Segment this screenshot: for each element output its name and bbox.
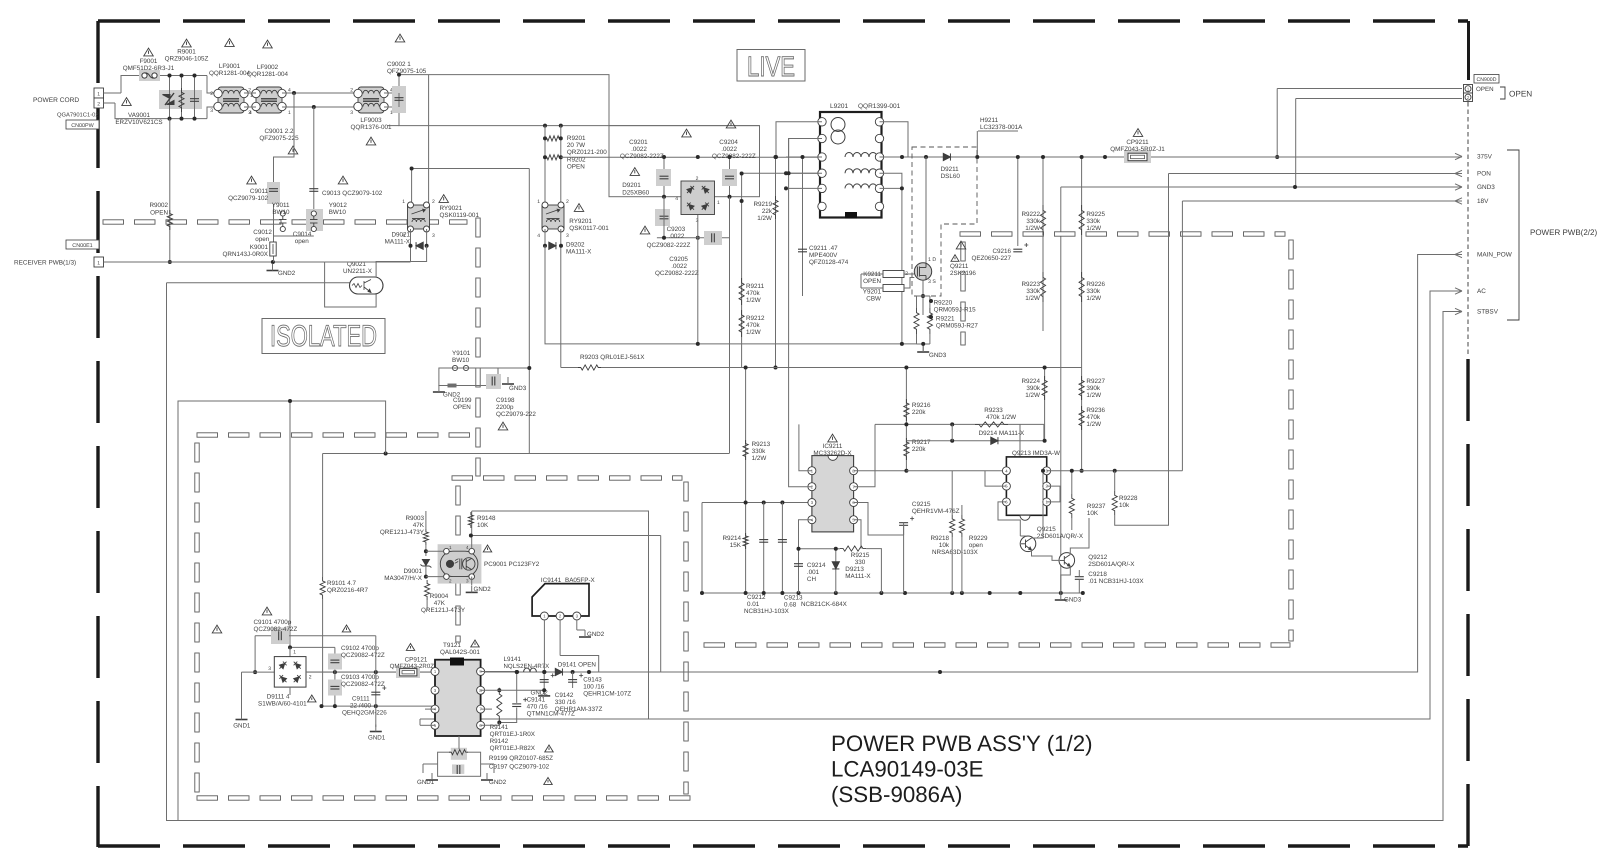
junction bbox=[410, 167, 414, 171]
svg-text:2: 2 bbox=[350, 88, 353, 94]
junction bbox=[784, 186, 788, 190]
junction bbox=[662, 155, 666, 159]
transistor Q9211 (MOSFET) bbox=[914, 263, 931, 280]
jumper CP9121 bbox=[400, 669, 417, 676]
svg-text:22 /400: 22 /400 bbox=[350, 703, 372, 710]
wire MAIN_POW net bbox=[306, 255, 1462, 673]
wire R9222 column bbox=[1042, 157, 1044, 331]
wire LF9001-LF9002 top bbox=[244, 92, 256, 94]
wire to Q9213 bbox=[906, 470, 1006, 472]
svg-text:MA3047/H/-X: MA3047/H/-X bbox=[384, 575, 423, 582]
junction bbox=[728, 195, 732, 199]
junction bbox=[1041, 155, 1045, 159]
junction bbox=[929, 315, 933, 319]
svg-text:R9101 4.7: R9101 4.7 bbox=[327, 580, 357, 587]
capacitor C9203 highlight bbox=[655, 209, 670, 226]
junction bbox=[950, 439, 954, 443]
junction bbox=[333, 670, 337, 674]
svg-text:1: 1 bbox=[288, 110, 291, 116]
svg-text:OPEN: OPEN bbox=[1476, 86, 1494, 93]
junction bbox=[288, 399, 292, 403]
svg-text:DSL60: DSL60 bbox=[941, 173, 961, 180]
svg-text:QRT01EJ-R82X: QRT01EJ-R82X bbox=[490, 745, 536, 752]
wire bridge minus bbox=[697, 215, 699, 238]
bracket POWER PWB(2/2) bbox=[1507, 150, 1519, 320]
svg-text:PC9001 PC123FY2: PC9001 PC123FY2 bbox=[484, 561, 540, 568]
svg-text:375V: 375V bbox=[1477, 154, 1493, 161]
svg-text:D25XB60: D25XB60 bbox=[622, 190, 649, 197]
svg-text:C9198: C9198 bbox=[496, 397, 515, 404]
wire standby top loop bbox=[178, 401, 386, 821]
capacitor C9203 bbox=[660, 216, 669, 219]
capacitor C9111 bbox=[371, 692, 380, 695]
svg-text:R9211: R9211 bbox=[746, 283, 765, 290]
resonator Y9012 highlight bbox=[306, 209, 323, 231]
node PON bbox=[1455, 170, 1462, 176]
svg-text:RY9021: RY9021 bbox=[440, 205, 463, 212]
junction bbox=[801, 155, 805, 159]
svg-text:C9002 1: C9002 1 bbox=[387, 61, 411, 68]
svg-text:(SSB-9086A): (SSB-9086A) bbox=[831, 782, 962, 807]
svg-text:D9141 OPEN: D9141 OPEN bbox=[558, 662, 597, 669]
warning symbol C9216 bbox=[956, 241, 966, 249]
svg-text:D9201: D9201 bbox=[622, 182, 641, 189]
wire 375V net bbox=[881, 156, 1462, 158]
pin L9201 left 2 bbox=[818, 134, 826, 142]
svg-text:C9204: C9204 bbox=[719, 139, 738, 146]
junction bbox=[384, 452, 388, 456]
resistor R9001 bbox=[179, 88, 184, 112]
capacitor C9204 bbox=[725, 176, 734, 179]
wire bbox=[916, 334, 918, 344]
wire R9201 column right bbox=[560, 126, 562, 207]
connector RECEIVER pin 1 bbox=[94, 257, 104, 267]
junction bbox=[696, 236, 700, 240]
wire bbox=[951, 537, 953, 593]
wire GND3 net bbox=[1061, 186, 1462, 188]
wire pin6 row bbox=[481, 724, 500, 726]
connector CN00PW label box bbox=[66, 120, 99, 129]
relay RY9201 highlight bbox=[542, 205, 564, 229]
junction bbox=[740, 199, 744, 203]
svg-text:C9013 QCZ9079-102: C9013 QCZ9079-102 bbox=[322, 190, 383, 197]
resistor R9220 bbox=[914, 308, 919, 334]
wire C9111 column bbox=[375, 636, 377, 727]
diode D9211 bbox=[943, 153, 950, 160]
svg-text:100 /16: 100 /16 bbox=[583, 684, 605, 691]
wire AC return net bbox=[420, 291, 1462, 719]
svg-text:330 /16: 330 /16 bbox=[555, 699, 577, 706]
wire LF9003 out bottom bbox=[384, 106, 399, 108]
transformer T9121 bbox=[435, 660, 481, 736]
svg-text:C9203: C9203 bbox=[667, 226, 686, 233]
wire R9203 left bbox=[561, 367, 580, 369]
pin L9201 left 1 bbox=[818, 118, 826, 126]
wire OPEN pin2 net bbox=[1296, 98, 1462, 100]
svg-text:QRZ0121-200: QRZ0121-200 bbox=[567, 149, 607, 156]
capacitor C9212 bbox=[759, 540, 768, 543]
pin L9201 left 5 bbox=[818, 184, 826, 192]
svg-text:D9021: D9021 bbox=[391, 232, 410, 239]
junction bbox=[543, 155, 547, 159]
wire C9142 drop bbox=[543, 672, 545, 694]
wire to fuse bbox=[121, 76, 141, 94]
wire C9211 branch bbox=[802, 157, 804, 296]
wire OPEN pin1 net bbox=[1277, 88, 1462, 90]
resistor R9226 bbox=[1079, 272, 1084, 302]
transformer L9201 windings bbox=[831, 118, 877, 189]
svg-text:C9201: C9201 bbox=[629, 139, 648, 146]
transformer L9201 bbox=[820, 112, 882, 218]
svg-text:R9203 QRL01EJ-561X: R9203 QRL01EJ-561X bbox=[580, 354, 645, 361]
transistor Q9215 bbox=[1020, 536, 1036, 552]
junction bbox=[1080, 469, 1084, 473]
junction bbox=[1070, 469, 1074, 473]
optocoupler PC9001 bbox=[440, 551, 478, 576]
junction bbox=[559, 124, 563, 128]
svg-text:QRZ9046-105Z: QRZ9046-105Z bbox=[165, 56, 209, 63]
wire LF9002-LF9003 bottom bbox=[282, 106, 358, 108]
wire H9211 drop bbox=[976, 131, 978, 157]
svg-text:470k 1/2W: 470k 1/2W bbox=[986, 414, 1016, 421]
wire bbox=[423, 763, 438, 765]
wire LF9001-LF9002 bottom bbox=[244, 106, 256, 108]
junction bbox=[168, 74, 172, 78]
label LIVE box bbox=[737, 50, 805, 82]
resistor R9004 bbox=[425, 580, 430, 600]
jumper H9211 bbox=[978, 130, 1018, 132]
wire R9002 branch bbox=[169, 119, 171, 262]
wire L9201 out3 bbox=[880, 187, 902, 189]
wire bbox=[536, 671, 556, 673]
resistor Y9201 (box) bbox=[883, 285, 904, 292]
resistor R9227 bbox=[1079, 376, 1084, 400]
wire OPEN pin1 drop bbox=[1276, 89, 1278, 158]
svg-text:L9141: L9141 bbox=[504, 656, 522, 663]
junction bbox=[797, 591, 801, 595]
wire L9201 pin4 bbox=[786, 172, 822, 174]
wire L9201 pin2 bbox=[789, 139, 822, 174]
wire Q9215 collector bbox=[1032, 471, 1044, 538]
svg-text:D9202: D9202 bbox=[566, 242, 585, 249]
wire to RY9021 pin2 bbox=[428, 75, 430, 207]
svg-text:1/2W: 1/2W bbox=[746, 297, 761, 304]
line filter LF9001 highlight bbox=[218, 87, 244, 113]
wire L9201 secondary return bbox=[880, 173, 902, 344]
svg-text:R9226: R9226 bbox=[1086, 281, 1105, 288]
svg-text:VA9001: VA9001 bbox=[128, 112, 150, 119]
svg-text:R9142: R9142 bbox=[490, 738, 509, 745]
fuse F9001 highlight bbox=[139, 70, 160, 81]
junction bbox=[950, 422, 954, 426]
warning symbol C9198 bbox=[498, 422, 508, 430]
svg-text:R9148: R9148 bbox=[477, 515, 496, 522]
wire bbox=[1071, 471, 1073, 494]
svg-text:3 S: 3 S bbox=[928, 279, 936, 285]
svg-text:Y9101: Y9101 bbox=[452, 350, 471, 357]
wire RY9021 pin3 down bbox=[426, 229, 428, 246]
junction bbox=[320, 704, 324, 708]
wire bbox=[1078, 570, 1080, 577]
resistor R9214 bbox=[743, 533, 748, 549]
wire R9216 column bbox=[905, 395, 907, 462]
warning symbol R9199 bbox=[544, 778, 553, 785]
wire bbox=[420, 724, 435, 726]
resistor R9141 bbox=[497, 688, 502, 723]
wire pin2 bend bbox=[115, 103, 121, 119]
junction bbox=[333, 704, 337, 708]
warning symbol C9002 bbox=[395, 34, 405, 42]
svg-text:Q9213 IMD3A-W: Q9213 IMD3A-W bbox=[1012, 450, 1060, 457]
svg-text:GND1: GND1 bbox=[368, 735, 386, 742]
wire C9101 row bbox=[255, 635, 376, 637]
wire L9201 pin5 bbox=[786, 187, 822, 189]
wire stub bbox=[387, 125, 399, 127]
wire bottom primary bbox=[121, 118, 207, 120]
wire D9214 net bbox=[906, 440, 1044, 442]
svg-text:C9212: C9212 bbox=[747, 594, 766, 601]
resistor R9221 bbox=[927, 308, 932, 334]
junction bbox=[1103, 155, 1107, 159]
warning symbol C9201 bbox=[682, 129, 692, 137]
wire bbox=[425, 566, 427, 578]
wire pin1 to filter bbox=[104, 92, 122, 94]
resistor R9218 bbox=[950, 515, 955, 537]
wire bbox=[419, 719, 421, 725]
wire bbox=[422, 764, 424, 773]
junction bbox=[834, 547, 838, 551]
junction bbox=[559, 136, 563, 140]
capacitor C9101 highlight bbox=[271, 628, 289, 645]
svg-text:RECEIVER PWB(1/3): RECEIVER PWB(1/3) bbox=[14, 260, 76, 267]
wire Y9201 left bbox=[861, 287, 883, 289]
wire L9201 out top bbox=[880, 122, 909, 157]
junction bbox=[900, 342, 904, 346]
svg-text:4: 4 bbox=[466, 545, 469, 550]
svg-text:QQR1376-001: QQR1376-001 bbox=[351, 124, 392, 131]
junction bbox=[397, 73, 401, 77]
junction bbox=[587, 670, 591, 674]
svg-text:QFZ0128-474: QFZ0128-474 bbox=[809, 259, 849, 266]
jumper CP9211 bbox=[1128, 153, 1147, 161]
svg-text:D9111 4: D9111 4 bbox=[267, 694, 290, 701]
junction bbox=[762, 591, 766, 595]
ground GND2 (C9197) bbox=[481, 779, 493, 781]
svg-text:QAL042S-001: QAL042S-001 bbox=[440, 649, 480, 656]
junction bbox=[424, 549, 428, 553]
wire RY9021 to Q9021 collector bbox=[376, 246, 427, 278]
resistor R9201 bbox=[545, 136, 561, 141]
ground GND2 (PC9001) bbox=[466, 591, 478, 593]
wire bbox=[426, 550, 444, 552]
junction bbox=[542, 670, 546, 674]
capacitor C9101 bbox=[279, 631, 282, 640]
node MAIN_POW bbox=[1455, 251, 1462, 257]
svg-text:H9211: H9211 bbox=[980, 117, 999, 124]
junction bbox=[662, 195, 666, 199]
svg-text:C9012: C9012 bbox=[253, 229, 272, 236]
svg-text:R9213: R9213 bbox=[752, 441, 771, 448]
capacitor C9213 bbox=[778, 540, 787, 543]
ground GND2 (Y9101) bbox=[433, 391, 445, 393]
wire bbox=[835, 549, 837, 593]
wire standby rail bbox=[306, 671, 435, 673]
capacitor C9142 bbox=[540, 680, 549, 683]
svg-text:QCZ9082-222Z: QCZ9082-222Z bbox=[655, 270, 699, 277]
wire IC pin4 net bbox=[799, 520, 812, 549]
capacitor C9204 highlight bbox=[722, 169, 737, 186]
svg-text:MA111-X: MA111-X bbox=[845, 573, 871, 580]
wire IC pin7 net bbox=[854, 424, 875, 486]
wire bbox=[929, 334, 931, 344]
svg-text:Y9011: Y9011 bbox=[272, 202, 290, 209]
svg-text:QQR1281-004: QQR1281-004 bbox=[209, 70, 250, 77]
junction bbox=[744, 366, 748, 370]
junction bbox=[424, 575, 428, 579]
wire Q9215 base feed bbox=[1020, 536, 1026, 537]
svg-text:CN00E1: CN00E1 bbox=[72, 243, 92, 249]
svg-text:2SK2196: 2SK2196 bbox=[950, 270, 976, 277]
svg-text:.0022: .0022 bbox=[721, 146, 737, 153]
svg-text:C9205: C9205 bbox=[669, 256, 688, 263]
wire receiver net bbox=[104, 261, 325, 263]
svg-text:20 7W: 20 7W bbox=[567, 142, 585, 149]
wire standby output bbox=[563, 671, 1417, 673]
svg-text:R9236: R9236 bbox=[1086, 407, 1105, 414]
optocoupler PC9001 highlight bbox=[438, 544, 482, 583]
resistor R9212 bbox=[739, 310, 744, 337]
dashed box Q9211 bbox=[912, 147, 977, 296]
capacitor C9198 bbox=[492, 377, 495, 386]
capacitor C9211 bbox=[798, 249, 807, 252]
svg-text:OPEN: OPEN bbox=[453, 404, 471, 411]
jumper CP9121 highlight bbox=[396, 667, 420, 679]
wire bbox=[1019, 424, 1021, 470]
line filter LF9002 bbox=[261, 90, 277, 106]
wire IC pin1 net bbox=[799, 424, 812, 470]
svg-text:1/2W: 1/2W bbox=[1025, 295, 1040, 302]
junction bbox=[921, 294, 925, 298]
wire Q9211 source down bbox=[922, 280, 924, 315]
dashed boundary LIVE/ISOLATED horizontal y222 bbox=[103, 220, 467, 224]
svg-text:R9229: R9229 bbox=[969, 535, 988, 542]
wire C9102 column bbox=[334, 647, 336, 706]
inductor L9141 bbox=[524, 668, 537, 672]
wire varistor branch bbox=[169, 76, 171, 119]
junction bbox=[497, 721, 501, 725]
wire bbox=[426, 576, 444, 578]
svg-text:QRZ0216-4R7: QRZ0216-4R7 bbox=[327, 587, 368, 594]
svg-text:NRSA63D-103X: NRSA63D-103X bbox=[932, 549, 979, 556]
wire L9201 out1 bbox=[880, 156, 903, 158]
svg-text:47K: 47K bbox=[434, 600, 446, 607]
svg-text:1/2W: 1/2W bbox=[1025, 225, 1040, 232]
wire bbox=[961, 537, 963, 593]
dashed boundary horizontal y478 bbox=[452, 476, 682, 480]
resistor R9228 bbox=[1112, 491, 1117, 515]
node STBSV bbox=[1455, 308, 1462, 314]
wire R9225 column bbox=[1081, 157, 1083, 331]
resonator Y9011 bbox=[280, 211, 285, 216]
svg-text:MPE400V: MPE400V bbox=[809, 252, 838, 259]
svg-text:CBW: CBW bbox=[866, 296, 881, 303]
junction bbox=[543, 124, 547, 128]
capacitor C9001 bbox=[190, 99, 199, 102]
fusible resistor K9001 bbox=[270, 242, 276, 256]
warning symbol LF9002 bbox=[263, 40, 273, 48]
junction bbox=[374, 670, 378, 674]
junction bbox=[542, 670, 546, 674]
wire 18V net bbox=[1182, 200, 1462, 202]
svg-text:D9001: D9001 bbox=[403, 568, 422, 575]
resistor R9237 bbox=[1069, 494, 1074, 518]
wire Q9212 emitter bbox=[1061, 567, 1071, 594]
bridge rectifier D9201 highlight bbox=[681, 181, 715, 215]
capacitor C9013 bbox=[309, 189, 318, 192]
relay RY9021 bbox=[412, 209, 426, 222]
svg-text:open: open bbox=[969, 542, 984, 549]
svg-text:R9237: R9237 bbox=[1087, 503, 1106, 510]
junction bbox=[515, 670, 519, 674]
warning symbol C9204 bbox=[726, 120, 736, 128]
junction bbox=[1041, 469, 1045, 473]
svg-text:1/2W: 1/2W bbox=[1086, 295, 1101, 302]
junction bbox=[193, 117, 197, 121]
wire Q9021 loop bbox=[325, 262, 377, 307]
pin L9201 left 4 bbox=[818, 169, 826, 177]
junction GND3 net bbox=[1293, 185, 1297, 189]
junction bbox=[975, 155, 979, 159]
svg-text:R9222: R9222 bbox=[1021, 211, 1040, 218]
svg-text:R9002: R9002 bbox=[149, 202, 168, 209]
ground GND2 (C9142) bbox=[538, 695, 550, 697]
svg-text:2: 2 bbox=[432, 199, 435, 205]
wire bbox=[916, 296, 918, 308]
wire C9141 drop bbox=[516, 672, 518, 703]
svg-text:C9218: C9218 bbox=[1088, 571, 1107, 578]
wire OPEN pin2 drop bbox=[1295, 99, 1297, 188]
warning symbol CP9211 bbox=[1133, 129, 1143, 137]
wire to D9111 pin3 bbox=[242, 671, 275, 673]
wire R9201 column left bbox=[544, 126, 546, 207]
wire bbox=[961, 505, 963, 515]
svg-text:C9141: C9141 bbox=[527, 697, 546, 704]
wire left bus drop bbox=[701, 503, 703, 594]
transformer L9201 core bbox=[845, 212, 857, 219]
svg-text:MA111-X: MA111-X bbox=[566, 249, 592, 256]
junction bbox=[180, 74, 184, 78]
wire IC pin3 net bbox=[702, 502, 813, 504]
wire GND1 stem bbox=[241, 672, 243, 713]
svg-text:R9227: R9227 bbox=[1086, 378, 1105, 385]
svg-text:UN2211-X: UN2211-X bbox=[343, 268, 373, 275]
svg-text:QEHQ2GM-226: QEHQ2GM-226 bbox=[342, 710, 387, 717]
svg-text:10K: 10K bbox=[1087, 510, 1099, 517]
node 18V bbox=[1455, 198, 1462, 204]
wire R9148 net bbox=[471, 535, 661, 537]
svg-text:QRN143J-0R0X: QRN143J-0R0X bbox=[223, 251, 269, 258]
junction bbox=[904, 366, 908, 370]
svg-text:GND1: GND1 bbox=[233, 723, 251, 730]
wire R9227 column bbox=[1081, 331, 1083, 462]
warning symbol RY9021 bbox=[439, 195, 449, 203]
svg-text:.0022: .0022 bbox=[671, 263, 687, 270]
wire Q9021 base net bbox=[167, 282, 350, 284]
wire R9233 net bbox=[875, 423, 1044, 425]
svg-text:1/2W: 1/2W bbox=[1086, 225, 1101, 232]
resistor R9202 bbox=[545, 155, 561, 160]
wire bbox=[929, 296, 931, 308]
